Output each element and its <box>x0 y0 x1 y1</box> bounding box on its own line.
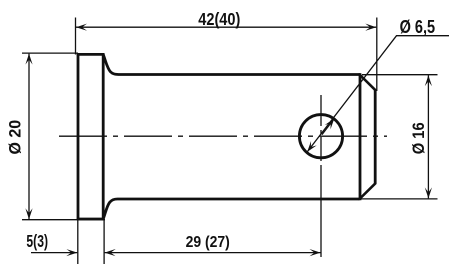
svg-text:Ø 16: Ø 16 <box>409 122 428 154</box>
dimension line 42(40) <box>76 26 376 28</box>
part outline: top fillet and body top edge <box>103 54 360 74</box>
extension line below flange right face <box>103 220 105 264</box>
part outline: chamfer edge circle line <box>359 73 362 200</box>
part outline: bottom fillet and body bottom edge <box>103 199 359 219</box>
extension line bottom for diameter 16 <box>361 198 438 200</box>
extension line right for 42(40) <box>376 18 378 92</box>
extension line below flange left face <box>77 220 79 264</box>
hole circle <box>299 115 342 158</box>
svg-text:Ø 20: Ø 20 <box>6 120 25 155</box>
extension line top for diameter 20 <box>22 52 78 54</box>
leader second arrowhead pointing up-right <box>322 119 334 135</box>
part outline: flange bottom edge <box>77 218 105 221</box>
extension line left for 42(40) <box>75 18 77 55</box>
dimension line diameter 16 <box>427 75 429 198</box>
part outline: top chamfer <box>360 75 376 91</box>
svg-text:Ø 6,5: Ø 6,5 <box>400 16 436 37</box>
leader line for hole diameter 6,5 <box>307 36 449 152</box>
wire horizontal main centerline <box>59 135 387 137</box>
dimension line diameter 20 <box>28 54 30 220</box>
svg-text:29 (27): 29 (27) <box>186 234 230 251</box>
svg-text:5(3): 5(3) <box>26 231 48 251</box>
part outline: bottom chamfer <box>360 183 376 199</box>
part outline: right end face <box>374 90 377 184</box>
dimension line 29 (27) <box>105 252 321 254</box>
part outline: flange left edge <box>77 53 80 220</box>
svg-text:42(40): 42(40) <box>198 9 240 29</box>
extension line bottom for diameter 20 <box>22 219 105 221</box>
wire vertical hole centerline <box>320 95 322 257</box>
part outline: flange top edge <box>77 53 105 56</box>
dimension line 5(3) left tail with arrow <box>31 252 77 254</box>
extension line top for diameter 16 <box>362 74 438 76</box>
part outline: flange right edge <box>102 53 105 220</box>
